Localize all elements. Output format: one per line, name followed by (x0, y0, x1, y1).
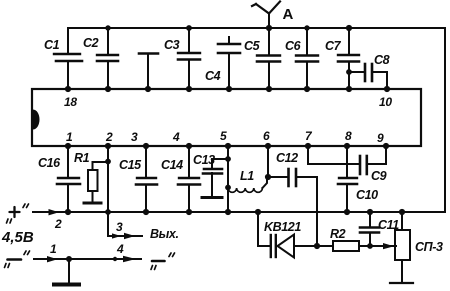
svg-text:R2: R2 (330, 227, 346, 241)
svg-text:10: 10 (379, 95, 392, 109)
svg-text:KB121: KB121 (264, 220, 301, 234)
svg-text:2: 2 (54, 217, 62, 231)
svg-text:8: 8 (345, 129, 352, 143)
svg-text:C16: C16 (38, 156, 61, 170)
svg-text:C11: C11 (378, 218, 399, 232)
svg-text:9: 9 (377, 131, 384, 145)
svg-text:C13: C13 (193, 153, 215, 167)
svg-text:C6: C6 (285, 39, 302, 53)
svg-text:7: 7 (305, 129, 313, 143)
svg-text:18: 18 (64, 95, 77, 109)
svg-text:C7: C7 (325, 39, 342, 53)
svg-text:1: 1 (50, 242, 57, 256)
svg-text:C1: C1 (44, 38, 60, 52)
svg-text:C5: C5 (244, 39, 261, 53)
svg-text:C14: C14 (161, 158, 183, 172)
svg-text:1: 1 (66, 130, 73, 144)
svg-text:4: 4 (172, 130, 180, 144)
svg-text:C3: C3 (164, 38, 180, 52)
svg-text:6: 6 (263, 129, 270, 143)
svg-text:C12: C12 (276, 151, 298, 165)
svg-text:C15: C15 (119, 158, 142, 172)
svg-text:R1: R1 (74, 151, 90, 165)
svg-text:CП-3: CП-3 (415, 240, 443, 254)
svg-text:3: 3 (131, 130, 138, 144)
svg-text:C4: C4 (205, 69, 221, 83)
svg-text:C2: C2 (83, 36, 99, 50)
svg-text:2: 2 (105, 130, 113, 144)
svg-text:5: 5 (220, 129, 227, 143)
svg-text:A: A (283, 6, 294, 23)
svg-text:Вых.: Вых. (150, 227, 179, 241)
svg-text:4: 4 (116, 242, 124, 256)
svg-text:3: 3 (116, 220, 123, 234)
svg-text:C9: C9 (371, 169, 387, 183)
svg-text:C8: C8 (374, 53, 390, 67)
svg-text:C10: C10 (356, 188, 378, 202)
svg-text:4,5В: 4,5В (1, 229, 34, 246)
svg-text:L1: L1 (240, 169, 254, 183)
